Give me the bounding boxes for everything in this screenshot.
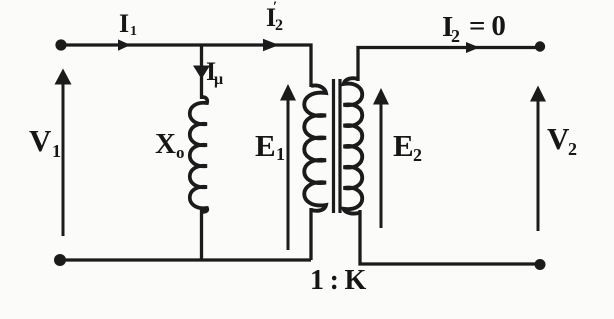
current arrow I2': [263, 39, 279, 51]
current arrow I2: [466, 42, 480, 53]
wire shunt branch vertical: [200, 45, 203, 99]
terminal dot bottom-left: [54, 254, 66, 266]
svg-text:V: V: [29, 123, 52, 158]
svg-text:1 : K: 1 : K: [310, 265, 367, 296]
voltage arrow E2: [380, 103, 383, 228]
svg-text:2: 2: [568, 139, 577, 159]
svg-text:= 0: = 0: [469, 10, 506, 42]
svg-text:1: 1: [52, 141, 61, 161]
transformer secondary winding: [344, 78, 363, 213]
voltage arrow E1: [287, 99, 290, 250]
svg-text:o: o: [176, 143, 185, 162]
svg-text:2: 2: [275, 17, 283, 34]
wire top secondary: [358, 48, 540, 82]
wire top primary: [61, 45, 311, 87]
svg-text:μ: μ: [214, 71, 223, 88]
current arrow Imu: [193, 66, 210, 80]
wire bottom primary: [60, 258, 311, 261]
wire primary coil bottom lead: [309, 208, 312, 260]
inductor Xo coil: [190, 97, 208, 212]
transformer core: [332, 79, 335, 213]
wire shunt branch lower: [200, 210, 203, 260]
svg-text:′: ′: [273, 0, 277, 15]
terminal dot top-left: [55, 39, 66, 50]
svg-text:I: I: [119, 9, 129, 38]
voltage arrow V1: [62, 83, 65, 236]
wire bottom secondary: [360, 210, 540, 264]
svg-text:2: 2: [413, 145, 422, 165]
terminal dot top-right: [535, 41, 545, 51]
voltage arrow V2: [537, 100, 540, 231]
svg-text:E: E: [255, 128, 276, 163]
transformer primary winding: [304, 85, 326, 210]
svg-text:1: 1: [276, 144, 285, 164]
svg-text:2: 2: [451, 26, 460, 46]
current arrow I1: [118, 39, 131, 50]
svg-text:V: V: [547, 121, 570, 156]
terminal dot bottom-right: [535, 259, 546, 270]
svg-text:X: X: [155, 128, 176, 160]
svg-text:E: E: [393, 128, 414, 163]
svg-text:1: 1: [130, 24, 137, 39]
